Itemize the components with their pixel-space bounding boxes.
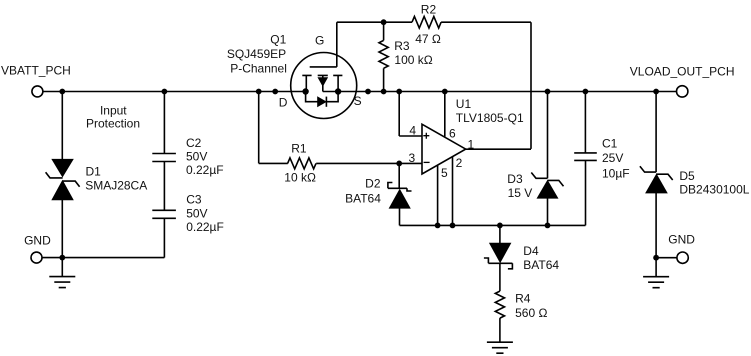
svg-text:2: 2 <box>456 156 463 170</box>
svg-text:5: 5 <box>441 166 448 180</box>
svg-text:D2: D2 <box>365 176 381 190</box>
node junction dot pin6 tap <box>442 89 448 95</box>
svg-text:D: D <box>279 96 288 110</box>
wire C2-C3 link <box>163 162 165 211</box>
node junction dot pin2 <box>450 223 456 229</box>
terminal GND right <box>668 233 695 264</box>
svg-text:BAT64: BAT64 <box>523 258 559 272</box>
svg-text:VBATT_PCH: VBATT_PCH <box>1 64 71 78</box>
node junction dot R1 tap <box>256 89 262 95</box>
svg-text:D4: D4 <box>523 244 539 258</box>
wire R1 drop from rail <box>259 92 288 164</box>
svg-text:C1: C1 <box>602 137 618 151</box>
terminal VBATT_PCH <box>1 64 71 97</box>
svg-text:BAT64: BAT64 <box>345 192 381 206</box>
svg-text:560 Ω: 560 Ω <box>515 306 547 320</box>
label Input Protection <box>86 104 140 131</box>
svg-text:C3: C3 <box>186 193 202 207</box>
node junction dot R3 top <box>381 19 387 25</box>
svg-text:R4: R4 <box>515 292 531 306</box>
node junction dot R3 bottom <box>381 89 387 95</box>
wire D5 top lead <box>655 92 657 173</box>
wire D2 bottom lead <box>399 208 401 225</box>
svg-text:15 V: 15 V <box>508 186 533 200</box>
node junction dot D2 tap <box>396 161 402 167</box>
wire D1 top lead <box>61 92 63 160</box>
terminal VLOAD_OUT_PCH <box>630 65 735 98</box>
svg-text:R1: R1 <box>291 142 307 156</box>
wire main top rail (source to VLOAD) <box>323 91 677 93</box>
wire ground rail left <box>42 257 164 259</box>
svg-text:50V: 50V <box>186 207 207 221</box>
wire analog ground rail <box>400 224 586 226</box>
svg-text:U1: U1 <box>456 97 472 111</box>
wire R4 bottom lead <box>499 318 501 342</box>
wire D3 top lead <box>547 92 549 179</box>
wire C3 bottom lead <box>163 218 165 257</box>
svg-text:GND: GND <box>668 233 695 247</box>
svg-text:VLOAD_OUT_PCH: VLOAD_OUT_PCH <box>630 65 735 79</box>
wire to right GND terminal <box>656 257 677 259</box>
node junction dot source pin <box>365 89 371 95</box>
node junction dot drain pin <box>272 89 278 95</box>
svg-text:25V: 25V <box>602 151 623 165</box>
svg-text:DB2430100L: DB2430100L <box>679 183 749 197</box>
svg-text:GND: GND <box>24 234 51 248</box>
svg-text:6: 6 <box>449 127 456 141</box>
svg-text:R3: R3 <box>394 39 410 53</box>
node junction dot D1 tap <box>59 89 65 95</box>
resistor R1 10 k <box>284 142 316 185</box>
svg-text:Input: Input <box>100 104 127 118</box>
svg-text:0.22µF: 0.22µF <box>186 220 224 234</box>
ground symbol left <box>49 258 75 288</box>
svg-text:D3: D3 <box>507 172 523 186</box>
transistor Q1 SQJ459EP P-Channel <box>227 32 362 118</box>
svg-text:SQJ459EP: SQJ459EP <box>227 47 286 61</box>
resistor R2 47 ohm <box>412 2 441 46</box>
svg-text:D1: D1 <box>86 164 102 178</box>
node junction dot D3 bottom <box>545 223 551 229</box>
svg-text:TLV1805-Q1: TLV1805-Q1 <box>456 111 524 125</box>
ground symbol right <box>643 258 669 288</box>
diode D3 15V zener <box>507 172 563 200</box>
wire pin5 to gnd rail <box>437 165 439 225</box>
node junction dot D5 tap <box>653 89 659 95</box>
wire pin2 to gnd rail <box>452 157 454 226</box>
op-amp U1 TLV1805-Q1 <box>409 97 524 180</box>
svg-text:Q1: Q1 <box>270 32 286 46</box>
terminal GND left <box>24 234 51 264</box>
resistor R4 560 ohm <box>495 291 547 320</box>
wire gate lead up <box>337 22 412 67</box>
wire D5 bottom lead <box>655 193 657 258</box>
node junction dot pin4 tap <box>396 89 402 95</box>
node junction dot gnd right <box>653 255 659 261</box>
capacitor C2 0.22uF <box>152 136 223 177</box>
wire D2 top lead <box>398 163 400 188</box>
wire C1 bottom lead <box>585 160 587 225</box>
svg-text:50V: 50V <box>186 150 207 164</box>
wire C2 top lead <box>163 92 165 154</box>
wire D4 to R4 <box>499 263 501 291</box>
node junction dot pin5 <box>435 223 441 229</box>
ground symbol R4 <box>487 342 513 353</box>
node junction dot C2 tap <box>162 89 168 95</box>
svg-text:C2: C2 <box>186 136 202 150</box>
node junction dot C1 tap <box>583 89 589 95</box>
wire pin1 output <box>466 148 531 150</box>
svg-text:Protection: Protection <box>86 117 140 131</box>
wire D1 bottom lead <box>61 200 63 258</box>
wire D3 bottom lead <box>547 198 549 225</box>
svg-text:G: G <box>315 34 324 48</box>
wire pin4 net from rail <box>399 92 422 137</box>
svg-text:3: 3 <box>409 151 416 165</box>
capacitor C1 10uF <box>574 137 629 181</box>
svg-text:D5: D5 <box>679 169 695 183</box>
wire C1 top lead <box>584 92 586 153</box>
wire pin6 supply <box>444 92 446 137</box>
wire R1 to inverting input (pin 3 net) <box>316 162 422 164</box>
svg-text:10 kΩ: 10 kΩ <box>284 170 316 184</box>
svg-text:10µF: 10µF <box>602 166 630 180</box>
node junction dot gnd left <box>59 255 65 261</box>
svg-text:100 kΩ: 100 kΩ <box>394 53 432 67</box>
wire D4 top lead <box>499 225 501 243</box>
resistor R3 100 k <box>379 22 433 91</box>
wire R2 right to output net <box>441 22 531 149</box>
diode D5 DB2430100L <box>640 166 750 196</box>
node junction dot D3 tap <box>545 89 551 95</box>
svg-text:P-Channel: P-Channel <box>230 62 287 76</box>
wire main top rail (VBATT to drain) <box>43 91 306 93</box>
svg-text:47 Ω: 47 Ω <box>415 32 441 46</box>
svg-text:4: 4 <box>409 123 416 137</box>
capacitor C3 0.22uF <box>152 193 224 234</box>
svg-text:0.22µF: 0.22µF <box>186 163 224 177</box>
svg-text:R2: R2 <box>421 2 437 16</box>
svg-text:SMAJ28CA: SMAJ28CA <box>85 178 147 192</box>
diode D1 SMAJ28CA (bidirectional TVS) <box>46 159 148 200</box>
svg-text:S: S <box>354 94 362 108</box>
node junction dot D4 tap <box>497 223 503 229</box>
diode D2 BAT64 (schottky, pointing up) <box>345 176 411 208</box>
diode D4 BAT64 (schottky, pointing down) <box>484 243 560 272</box>
